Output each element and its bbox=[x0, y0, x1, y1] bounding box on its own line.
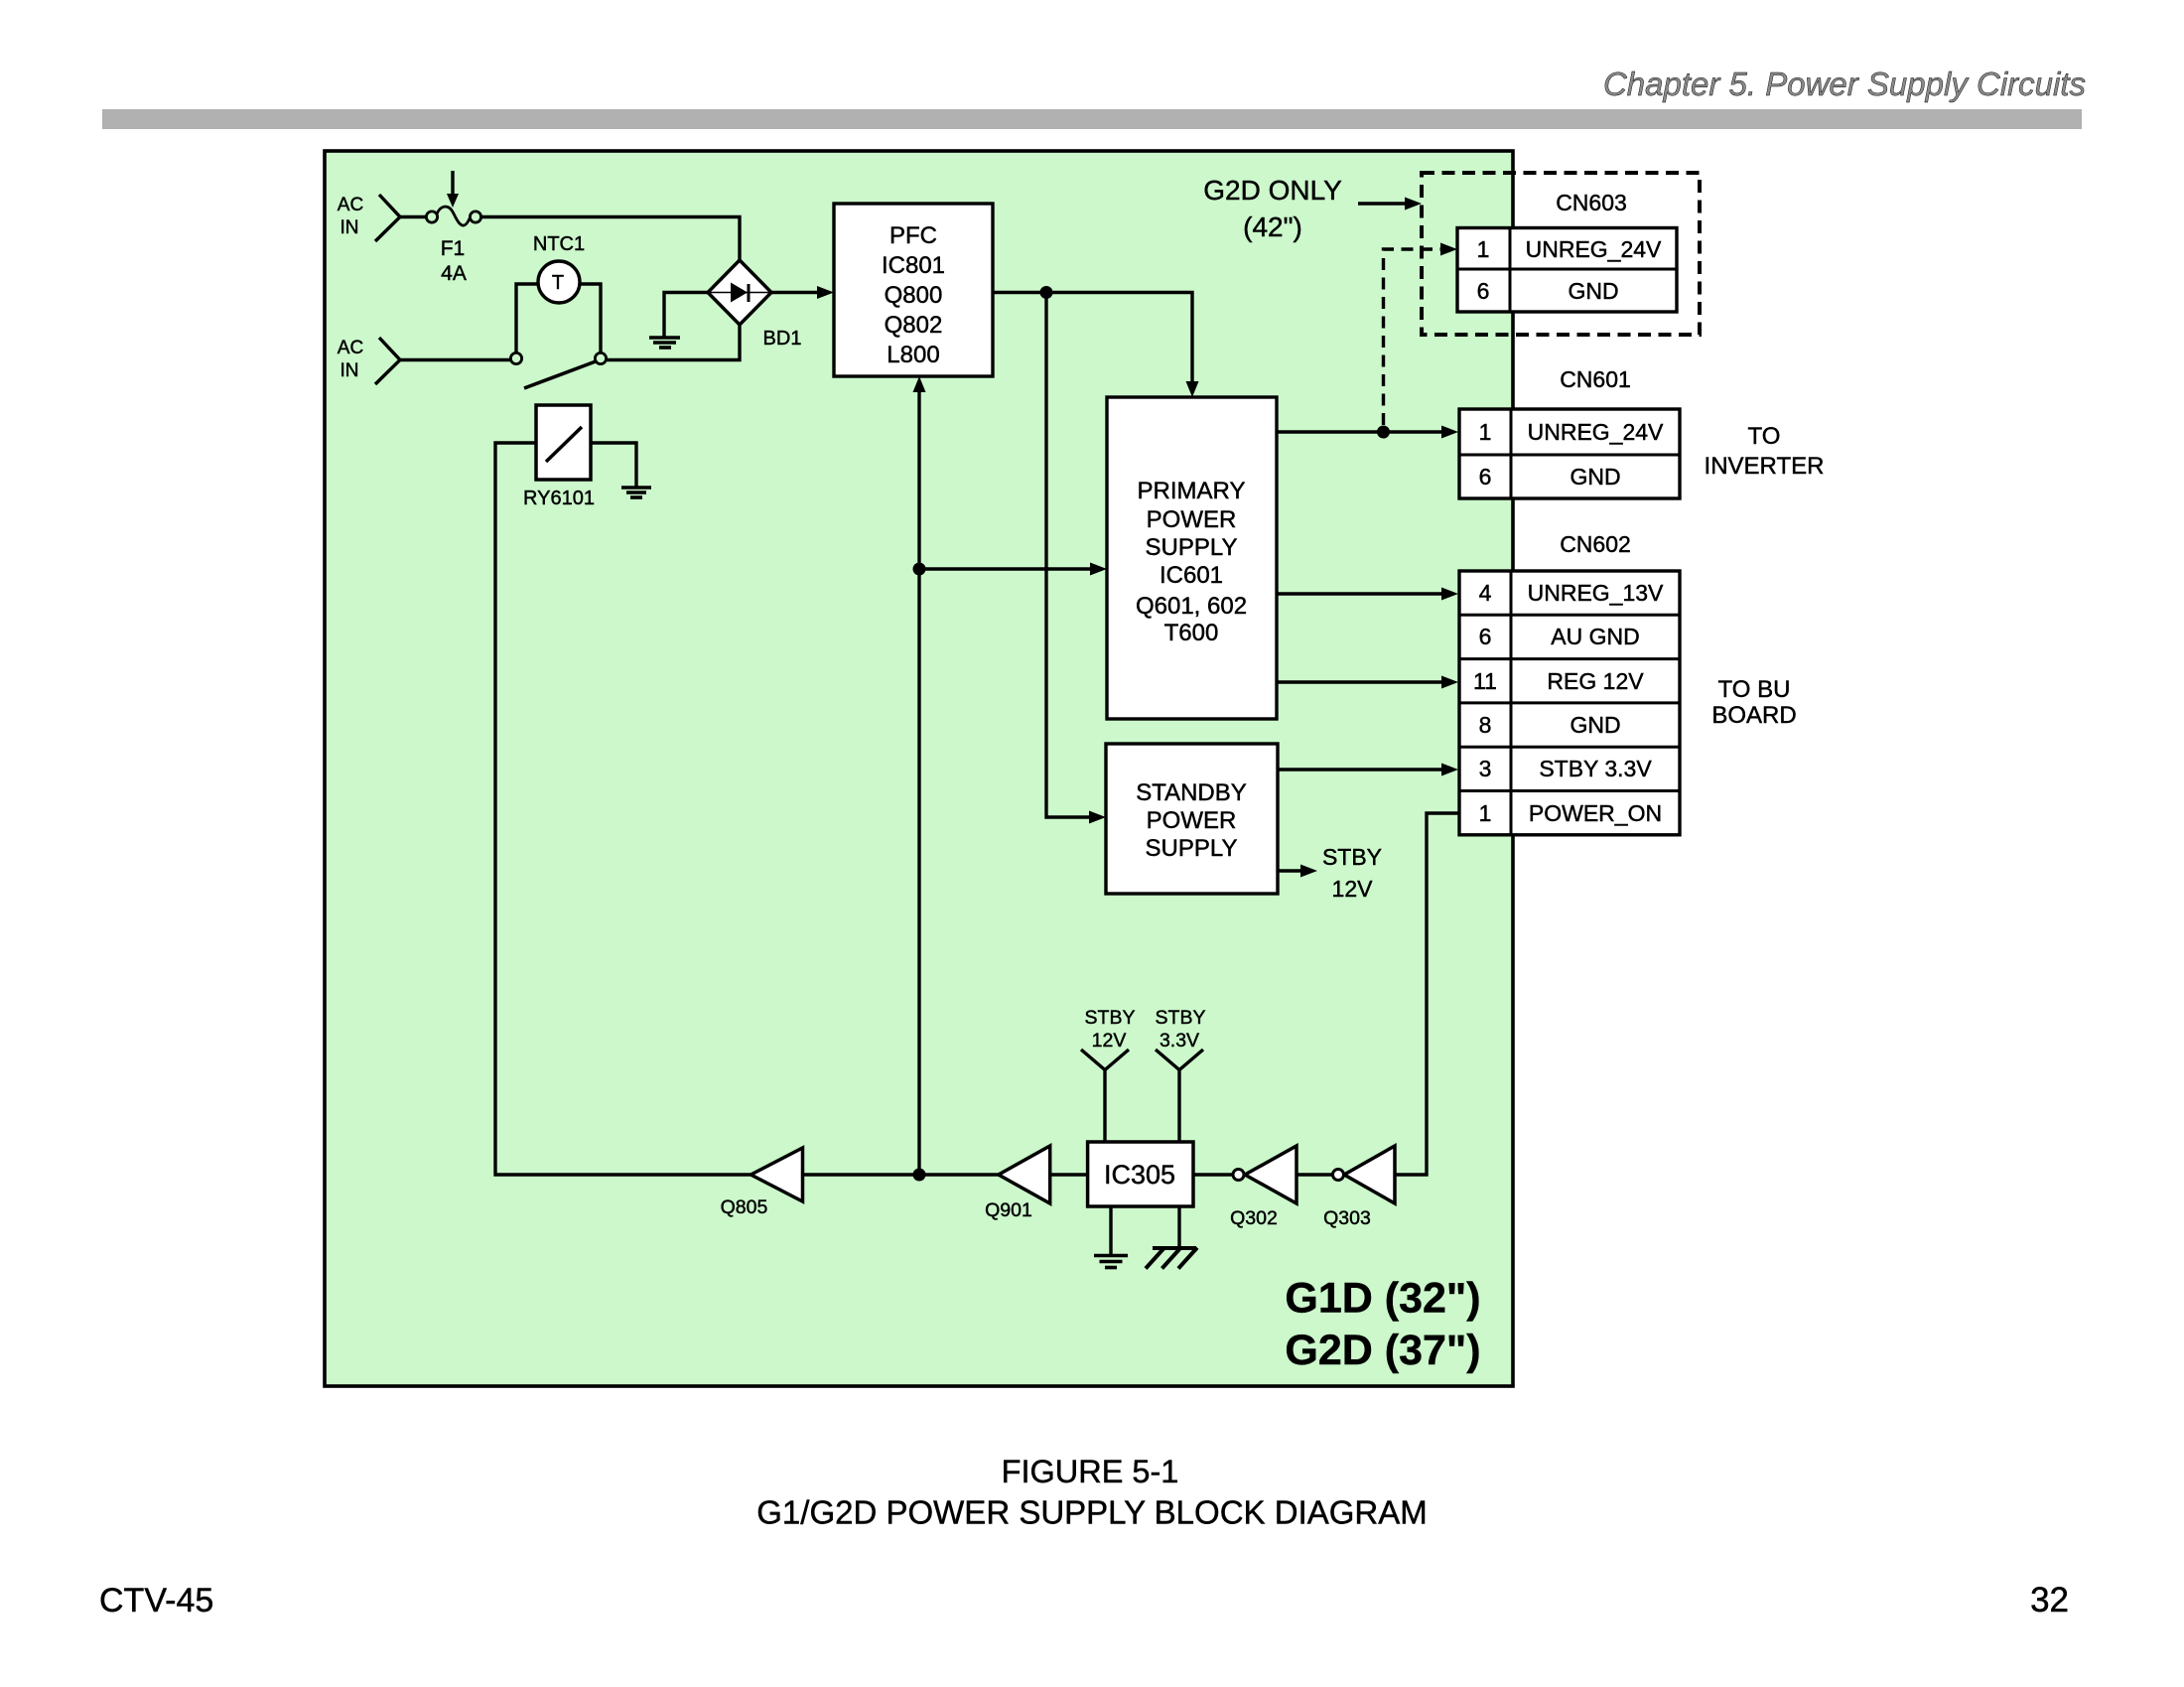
wire AC bottom to switch bbox=[400, 358, 511, 361]
thermistor NTC1 bbox=[533, 233, 585, 303]
svg-text:STANDBY: STANDBY bbox=[1136, 779, 1247, 806]
svg-text:BOARD: BOARD bbox=[1711, 702, 1796, 729]
wire junction to PRIMARY left with arrow bbox=[919, 563, 1107, 576]
svg-text:6: 6 bbox=[1479, 624, 1492, 649]
svg-text:G2D ONLY: G2D ONLY bbox=[1203, 175, 1342, 206]
connector CN602 bbox=[1459, 531, 1680, 835]
svg-text:TO BU: TO BU bbox=[1718, 676, 1791, 703]
ground (relay) bbox=[621, 488, 651, 497]
svg-text:AU GND: AU GND bbox=[1551, 624, 1639, 649]
header chapter title bbox=[1603, 66, 2086, 102]
svg-text:6: 6 bbox=[1479, 464, 1492, 490]
svg-text:Q601, 602: Q601, 602 bbox=[1136, 593, 1247, 620]
svg-text:IN: IN bbox=[341, 360, 359, 381]
block STANDBY POWER SUPPLY bbox=[1106, 744, 1278, 894]
wire NTC right leg bbox=[580, 284, 601, 354]
svg-text:TO: TO bbox=[1748, 423, 1781, 450]
svg-text:REG 12V: REG 12V bbox=[1547, 668, 1644, 694]
svg-text:Chapter 5. Power Supply Circui: Chapter 5. Power Supply Circuits bbox=[1603, 66, 2086, 102]
svg-text:UNREG_24V: UNREG_24V bbox=[1526, 236, 1662, 262]
wire AC top to fuse bbox=[400, 215, 428, 218]
node AC IN (top) bbox=[338, 195, 400, 241]
svg-text:1: 1 bbox=[1479, 419, 1492, 445]
power flag STBY 3.3V bbox=[1156, 1007, 1206, 1142]
connector CN601 bbox=[1459, 366, 1680, 498]
svg-text:UNREG_24V: UNREG_24V bbox=[1528, 419, 1664, 445]
block PFC IC801 Q800 Q802 L800 bbox=[834, 204, 993, 376]
node AC IN (bottom) bbox=[338, 338, 400, 384]
svg-text:POWER_ON: POWER_ON bbox=[1529, 800, 1662, 826]
svg-text:(42"): (42") bbox=[1243, 211, 1302, 242]
svg-text:STBY: STBY bbox=[1156, 1007, 1206, 1029]
arrow G2D ONLY to dashed box bbox=[1358, 198, 1422, 211]
svg-text:STBY: STBY bbox=[1085, 1007, 1136, 1029]
svg-text:RY6101: RY6101 bbox=[523, 488, 595, 509]
fuse F1 bbox=[426, 207, 480, 225]
wire junction down to STANDBY bbox=[1046, 293, 1106, 824]
svg-text:Q802: Q802 bbox=[885, 312, 943, 339]
svg-text:G2D (37"): G2D (37") bbox=[1285, 1327, 1480, 1374]
svg-text:GND: GND bbox=[1568, 278, 1618, 304]
label G2D ONLY (42") bbox=[1203, 175, 1342, 242]
svg-text:1: 1 bbox=[1477, 236, 1490, 262]
wire PRIMARY to CN601 pin1 bbox=[1277, 426, 1458, 439]
svg-text:G1/G2D POWER SUPPLY BLOCK DIAG: G1/G2D POWER SUPPLY BLOCK DIAGRAM bbox=[756, 1494, 1427, 1531]
svg-text:6: 6 bbox=[1477, 278, 1490, 304]
svg-text:NTC1: NTC1 bbox=[533, 233, 585, 255]
svg-text:3: 3 bbox=[1479, 756, 1492, 781]
wire PRIMARY to CN602 pin11 bbox=[1277, 676, 1458, 689]
wire STANDBY to CN602 pin3 bbox=[1278, 764, 1458, 776]
wire BD1 to PFC with arrow bbox=[771, 286, 834, 299]
svg-text:PRIMARY: PRIMARY bbox=[1138, 478, 1246, 504]
svg-text:FIGURE 5-1: FIGURE 5-1 bbox=[1002, 1454, 1179, 1489]
svg-text:32: 32 bbox=[2030, 1581, 2069, 1619]
svg-text:Q901: Q901 bbox=[985, 1199, 1032, 1221]
svg-text:CN603: CN603 bbox=[1556, 190, 1627, 215]
wire PFC output to PRIMARY (with corner) bbox=[993, 293, 1199, 398]
node junction feedback bottom bbox=[913, 1169, 926, 1182]
wire Q805 back to relay RY6101 bbox=[495, 443, 751, 1175]
transistor Q303 (inverter) bbox=[1323, 1146, 1395, 1229]
svg-text:CN601: CN601 bbox=[1560, 366, 1631, 392]
node junction on CN601 wire bbox=[1377, 426, 1390, 439]
svg-text:UNREG_13V: UNREG_13V bbox=[1528, 580, 1664, 606]
svg-text:IC305: IC305 bbox=[1104, 1160, 1175, 1190]
svg-text:12V: 12V bbox=[1332, 876, 1374, 902]
transistor Q302 (inverter) bbox=[1230, 1146, 1297, 1229]
transistor Q901 (inverter) bbox=[985, 1146, 1050, 1221]
svg-text:INVERTER: INVERTER bbox=[1705, 453, 1825, 480]
svg-text:Q303: Q303 bbox=[1323, 1207, 1371, 1229]
chassis ground (IC305 right) bbox=[1146, 1206, 1197, 1269]
dashed wire junction to CN603 pin1 bbox=[1384, 243, 1458, 426]
block PRIMARY POWER SUPPLY IC601 Q601,602 T600 bbox=[1107, 397, 1277, 719]
green diagram panel bbox=[325, 151, 1513, 1386]
svg-text:11: 11 bbox=[1473, 668, 1497, 694]
svg-text:STBY 3.3V: STBY 3.3V bbox=[1539, 756, 1652, 781]
svg-text:T: T bbox=[552, 272, 564, 294]
wire switch to BD1 bottom bbox=[606, 325, 740, 360]
svg-text:L800: L800 bbox=[887, 342, 939, 368]
ground (IC305 left) bbox=[1094, 1206, 1128, 1268]
svg-text:GND: GND bbox=[1570, 464, 1620, 490]
svg-text:AC: AC bbox=[338, 195, 363, 215]
svg-text:CN602: CN602 bbox=[1560, 531, 1631, 557]
header gray bar bbox=[102, 109, 2082, 129]
svg-text:4: 4 bbox=[1479, 580, 1492, 606]
svg-text:SUPPLY: SUPPLY bbox=[1146, 534, 1238, 561]
svg-text:GND: GND bbox=[1570, 712, 1620, 738]
wire feedback vertical into PFC bottom bbox=[913, 376, 926, 1175]
svg-text:IN: IN bbox=[341, 217, 359, 238]
svg-text:G1D (32"): G1D (32") bbox=[1285, 1275, 1480, 1323]
svg-text:IC801: IC801 bbox=[882, 252, 945, 279]
svg-text:12V: 12V bbox=[1092, 1030, 1127, 1052]
wire Q901 to Q805 bbox=[803, 1173, 999, 1176]
wire fuse to BD1 top bbox=[479, 217, 740, 261]
wire Q302 to IC305 bbox=[1193, 1173, 1233, 1176]
svg-text:STBY: STBY bbox=[1322, 844, 1382, 870]
label STBY 12V output bbox=[1322, 844, 1382, 902]
relay RY6101 bbox=[523, 405, 595, 509]
svg-text:Q302: Q302 bbox=[1230, 1207, 1278, 1229]
power flag STBY 12V bbox=[1081, 1007, 1135, 1142]
wire STANDBY to STBY 12V arrow bbox=[1278, 865, 1317, 878]
svg-text:IC601: IC601 bbox=[1160, 562, 1223, 589]
svg-text:AC: AC bbox=[338, 338, 363, 358]
node junction feedback/primary bbox=[913, 563, 926, 576]
label TO INVERTER bbox=[1705, 423, 1825, 480]
ground (BD1) bbox=[649, 293, 708, 349]
svg-text:PFC: PFC bbox=[889, 222, 937, 249]
svg-text:8: 8 bbox=[1479, 712, 1492, 738]
wire PRIMARY to CN602 pin4 bbox=[1277, 588, 1458, 601]
label F1 4A bbox=[441, 237, 467, 285]
connector CN603 bbox=[1457, 190, 1677, 312]
svg-text:3.3V: 3.3V bbox=[1160, 1030, 1199, 1052]
wire relay to ground bbox=[591, 443, 636, 487]
relay switch contacts bbox=[510, 352, 606, 388]
transistor Q805 (inverter) bbox=[721, 1148, 803, 1218]
wire POWER_ON down to inverter chain bbox=[1395, 813, 1459, 1175]
label TO BU BOARD bbox=[1711, 676, 1796, 729]
svg-text:BD1: BD1 bbox=[763, 328, 802, 350]
dashed G2D-only enclosure bbox=[1422, 173, 1700, 335]
svg-text:F1: F1 bbox=[441, 237, 466, 260]
svg-text:CTV-45: CTV-45 bbox=[99, 1582, 213, 1619]
svg-text:POWER: POWER bbox=[1147, 807, 1237, 834]
svg-text:T600: T600 bbox=[1164, 620, 1219, 646]
wire IC305 to Q901 bbox=[1050, 1173, 1088, 1176]
wire Q303 to Q302 bbox=[1297, 1173, 1332, 1176]
svg-text:4A: 4A bbox=[441, 262, 467, 285]
svg-text:POWER: POWER bbox=[1147, 506, 1237, 533]
arrow into fuse bbox=[447, 171, 459, 208]
svg-text:SUPPLY: SUPPLY bbox=[1146, 835, 1238, 862]
bridge rectifier BD1 bbox=[708, 260, 771, 325]
svg-text:Q800: Q800 bbox=[885, 282, 943, 309]
IC U IC305 bbox=[1088, 1142, 1193, 1206]
svg-text:Q805: Q805 bbox=[721, 1196, 768, 1218]
node junction on PFC output bbox=[1040, 286, 1053, 299]
wire NTC left leg bbox=[516, 284, 538, 354]
svg-text:1: 1 bbox=[1479, 800, 1492, 826]
